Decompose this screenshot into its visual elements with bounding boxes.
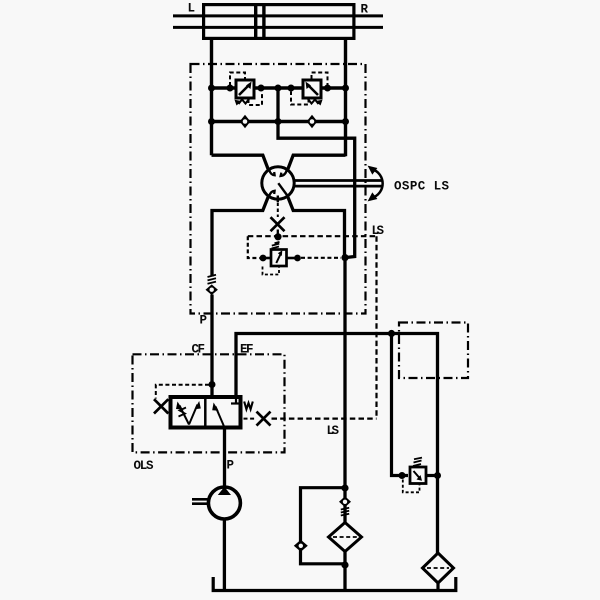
- PV divider: [204, 397, 207, 428]
- LS line vertical right: [375, 236, 377, 418]
- wire rail upper: [212, 86, 346, 89]
- node aux branch: [388, 330, 395, 337]
- node LS tap: [274, 233, 281, 240]
- cylinder rod: [173, 16, 383, 28]
- LS relief pilot left leg: [248, 236, 260, 258]
- filter F1: [329, 523, 362, 552]
- svg-text:OLS: OLS: [134, 459, 154, 473]
- wire circle top-left: [212, 155, 269, 170]
- check valve CV3 on P: [206, 284, 218, 295]
- junction dots rail lower: [208, 118, 349, 125]
- pilot line V2: [312, 73, 328, 87]
- wire R2 right leg: [426, 474, 438, 477]
- wire F2 to tank: [436, 583, 439, 590]
- LS relief valve V3: [271, 250, 287, 267]
- wire circle bottom-right: [287, 196, 344, 258]
- steering wheel arrow: [368, 166, 383, 202]
- spring PV right: [244, 402, 253, 410]
- junction dots rail upper: [208, 85, 349, 92]
- auxiliary dash-dot enclosure: [399, 323, 468, 379]
- svg-text:R: R: [361, 3, 369, 17]
- check valve CV1: [240, 115, 251, 128]
- drain line V1: [249, 92, 263, 106]
- wire R port down: [344, 40, 347, 156]
- wire pump suction: [223, 519, 226, 589]
- check valve CV2: [307, 115, 318, 128]
- PV left position arrows: [176, 401, 201, 425]
- spring R2: [413, 458, 422, 466]
- cylinder C1 body: [204, 5, 354, 39]
- LS line horizontal upper: [248, 235, 377, 237]
- svg-text:P: P: [227, 458, 235, 472]
- svg-text:EF: EF: [240, 343, 254, 357]
- relief valve R2: [410, 467, 426, 484]
- orifice X right: [257, 412, 271, 426]
- filter F2: [423, 553, 454, 583]
- wire P down to valve: [210, 295, 213, 396]
- svg-text:L: L: [188, 2, 196, 16]
- V3 drain dashed box: [263, 267, 280, 275]
- LS pilot from rotor: [277, 203, 279, 218]
- V3 drain to tank line: [301, 257, 341, 259]
- V3 port stubs and nodes: [260, 255, 301, 262]
- svg-text:LS: LS: [372, 224, 385, 238]
- wire pump to valve P: [223, 430, 226, 488]
- node R2 left: [399, 472, 406, 479]
- LS line to priority valve: [272, 418, 377, 420]
- svg-text:P: P: [200, 314, 208, 328]
- priority valve PV body: [171, 397, 241, 428]
- node CF pilot tap: [209, 381, 216, 388]
- steering unit U1 rotor: [262, 167, 294, 202]
- tank T1: [213, 577, 456, 591]
- orifice X left: [154, 399, 168, 413]
- spring CV5: [341, 508, 349, 516]
- steering column shaft: [294, 181, 383, 187]
- wire center connector to T: [278, 88, 355, 258]
- node tank junction upper: [341, 254, 348, 261]
- wire EF riser and aux feed: [236, 334, 438, 554]
- wire L port down: [210, 40, 213, 155]
- pilot line priority right: [244, 418, 256, 420]
- svg-text:OSPC LS: OSPC LS: [394, 180, 449, 194]
- pump PU1: [208, 487, 240, 519]
- wire circle top-right: [287, 155, 345, 170]
- node return lower: [341, 561, 348, 568]
- spring V3: [272, 242, 280, 249]
- wire bypass branch: [301, 488, 346, 564]
- svg-text:LS: LS: [327, 424, 340, 438]
- svg-text:CF: CF: [192, 343, 206, 357]
- pilot line V1: [230, 73, 245, 87]
- wire rail lower: [212, 120, 346, 123]
- check valve CV5 return: [339, 496, 351, 507]
- wire tank return main: [343, 258, 346, 488]
- spring V1: [235, 99, 250, 106]
- pilot line priority left: [156, 385, 209, 399]
- R2 drain dashed box: [403, 480, 420, 493]
- steering unit dash-dot enclosure: [191, 64, 366, 314]
- check valve CV4 bypass: [294, 540, 308, 552]
- relief valve V1: [236, 80, 254, 98]
- wire circle bottom-left: [212, 196, 269, 277]
- spring V2: [308, 99, 323, 106]
- OLS dash-dot enclosure: [133, 354, 285, 452]
- PV right position arrow: [212, 397, 241, 428]
- node return upper: [341, 484, 348, 491]
- drain line V2: [291, 92, 309, 105]
- wire relief R2 left leg: [392, 334, 409, 476]
- plug X below rotor: [271, 217, 285, 236]
- spring CV3: [208, 275, 217, 284]
- relief valve V2: [303, 80, 321, 98]
- wire return to tank: [343, 488, 346, 592]
- cylinder piston: [254, 3, 266, 40]
- pump shaft: [192, 499, 209, 503]
- node R2 right: [434, 472, 441, 479]
